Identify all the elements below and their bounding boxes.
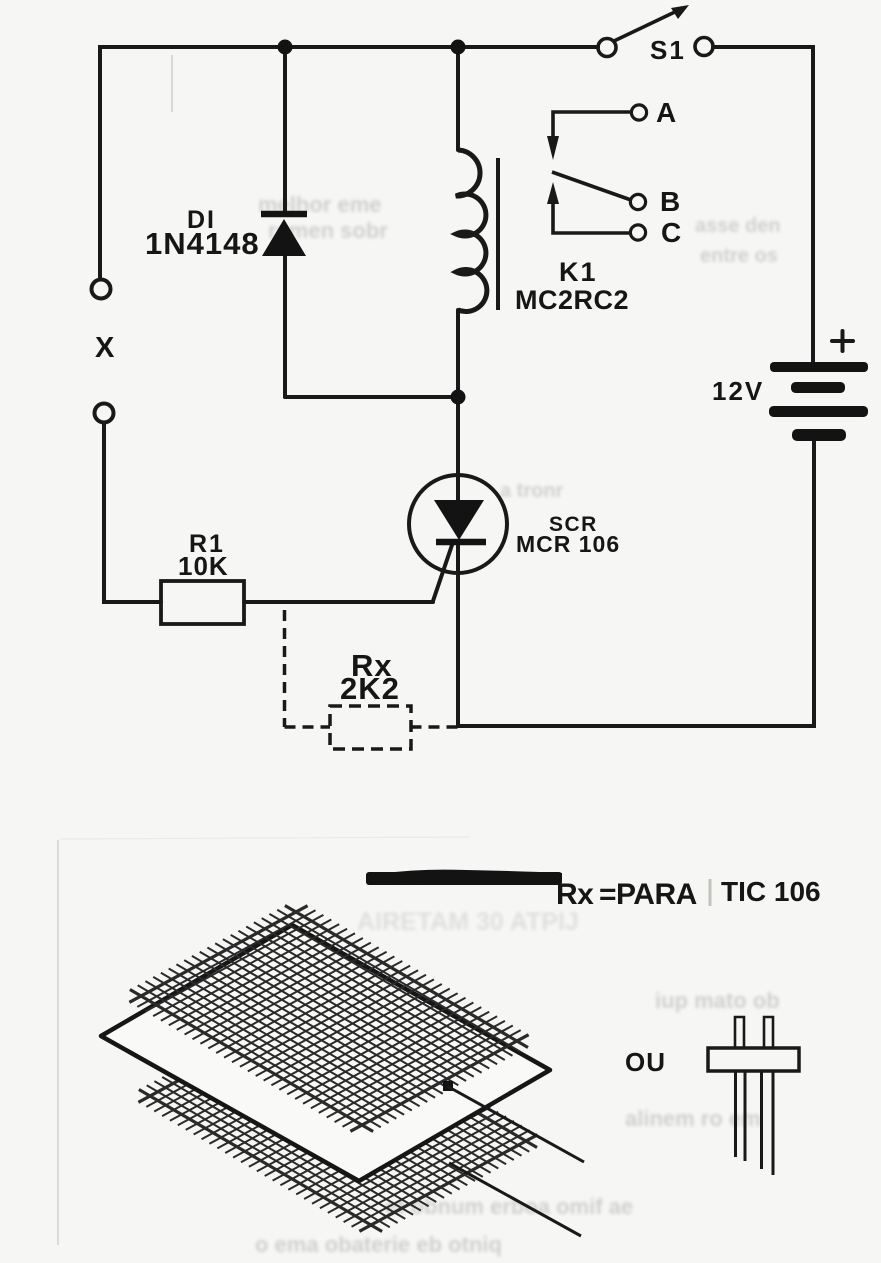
svg-text:iup mato ob: iup mato ob xyxy=(655,988,780,1013)
svg-text:entre os: entre os xyxy=(700,245,778,267)
svg-text:2K2: 2K2 xyxy=(340,671,400,706)
svg-text:AIRETAM 30 ATPIJ: AIRETAM 30 ATPIJ xyxy=(357,908,579,936)
svg-text:OU: OU xyxy=(625,1047,666,1077)
svg-text:TIC 106: TIC 106 xyxy=(721,876,821,907)
svg-text:12V: 12V xyxy=(712,376,764,406)
svg-text:K1: K1 xyxy=(559,257,598,287)
svg-text:Rx: Rx xyxy=(556,878,594,911)
svg-text:1N4148: 1N4148 xyxy=(145,226,260,261)
svg-text:=PARA: =PARA xyxy=(599,878,697,911)
svg-text:10K: 10K xyxy=(178,551,229,581)
svg-text:B: B xyxy=(660,186,680,217)
svg-text:X: X xyxy=(95,332,115,364)
svg-text:alinem ro em: alinem ro em xyxy=(625,1106,761,1131)
svg-text:asse den: asse den xyxy=(695,215,781,237)
svg-text:o ema obaterie eb otniq: o ema obaterie eb otniq xyxy=(255,1232,502,1257)
svg-text:MC2RC2: MC2RC2 xyxy=(515,285,629,315)
svg-text:a tronr: a tronr xyxy=(500,480,564,502)
svg-text:A: A xyxy=(656,97,676,128)
svg-text:C: C xyxy=(661,217,681,248)
svg-text:S1: S1 xyxy=(650,35,686,65)
svg-text:MCR 106: MCR 106 xyxy=(516,531,620,557)
